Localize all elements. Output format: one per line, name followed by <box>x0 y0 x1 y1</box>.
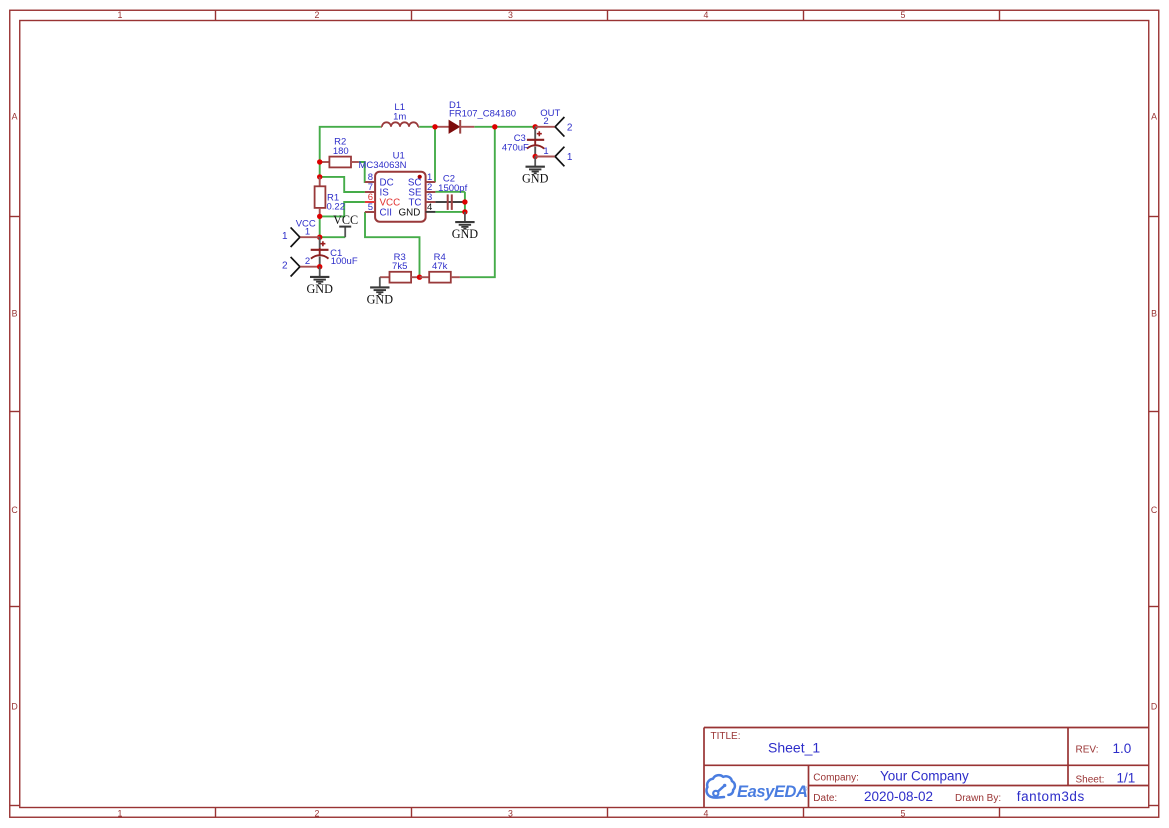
connector pin OUT 1 <box>535 146 573 166</box>
junction node C1 minus / GND <box>317 264 322 269</box>
svg-text:C: C <box>11 505 18 515</box>
U1 pin 7 IS <box>365 182 389 198</box>
svg-text:1/1: 1/1 <box>1117 771 1136 786</box>
op IC U1 MC34063N body <box>358 150 425 221</box>
U1 pin 6 VCC <box>365 192 400 208</box>
svg-text:D: D <box>1151 702 1157 712</box>
svg-text:fantom3ds: fantom3ds <box>1017 789 1085 804</box>
svg-text:4: 4 <box>704 809 709 819</box>
diode D1 FR107 <box>435 100 516 134</box>
svg-text:Drawn By:: Drawn By: <box>955 793 1001 804</box>
svg-text:TITLE:: TITLE: <box>711 731 741 742</box>
svg-text:2: 2 <box>567 122 573 133</box>
svg-text:Your Company: Your Company <box>880 769 969 784</box>
svg-text:1: 1 <box>118 10 123 20</box>
capacitor C1 100uF polarized <box>311 237 358 267</box>
U1 pin 2 SE <box>408 182 435 198</box>
ruler band end tick bottom-right <box>1149 805 1159 807</box>
wire: L1 to SC/diode node <box>419 126 435 128</box>
svg-text:1: 1 <box>567 152 573 163</box>
svg-text:D: D <box>11 702 17 712</box>
ruler numbers top <box>118 10 906 20</box>
svg-text:Sheet:: Sheet: <box>1076 775 1105 786</box>
svg-text:5: 5 <box>368 202 373 213</box>
wire: top rail left segment VCC node to L1 <box>320 127 381 162</box>
svg-text:470uF: 470uF <box>502 142 529 153</box>
svg-text:EasyEDA: EasyEDA <box>737 783 808 801</box>
svg-text:2: 2 <box>315 809 320 819</box>
svg-text:B: B <box>12 309 18 319</box>
EasyEDA logo dot <box>723 784 726 787</box>
title block outline <box>704 728 1149 808</box>
svg-text:4: 4 <box>704 10 709 20</box>
junction node C2 right / TC <box>462 199 467 204</box>
connector pin VCC 2 <box>282 256 320 276</box>
wire: left rail R2 node to IS node <box>319 162 321 177</box>
junction node at C3 minus / OUT pin 1 <box>533 154 538 159</box>
svg-text:Date:: Date: <box>813 793 837 804</box>
resistor R3 7k5 <box>380 252 420 283</box>
ruler band end tick bottom-left <box>10 805 20 807</box>
svg-text:REV:: REV: <box>1076 745 1099 756</box>
svg-text:180: 180 <box>333 146 349 157</box>
U1 pin 4 GND <box>399 202 436 218</box>
ruler tick marks top <box>216 10 1000 20</box>
svg-text:1500pf: 1500pf <box>438 183 467 194</box>
svg-text:Sheet_1: Sheet_1 <box>768 740 820 756</box>
ruler tick marks bottom <box>216 808 1000 818</box>
junction node IS route <box>317 174 322 179</box>
junction node C2 rail / pin4 <box>462 209 467 214</box>
svg-text:2020-08-02: 2020-08-02 <box>864 789 933 804</box>
svg-text:2: 2 <box>315 10 320 20</box>
svg-text:100uF: 100uF <box>331 256 358 267</box>
junction node R3/R4/divider <box>417 275 422 280</box>
svg-text:3: 3 <box>508 10 513 20</box>
svg-text:VCC: VCC <box>333 213 358 227</box>
svg-text:A: A <box>12 112 18 122</box>
svg-text:CII: CII <box>380 207 393 218</box>
junction node at feedback rail <box>492 124 497 129</box>
junction node VCC connector pin1 <box>317 235 322 240</box>
ground symbol at C2 rail <box>452 212 479 241</box>
svg-text:7k5: 7k5 <box>392 261 407 272</box>
wire: feedback rail from OUT node down to R4 <box>460 127 495 277</box>
resistor R4 47k <box>420 252 460 283</box>
wire: VCC junction to VCC power flag <box>320 236 346 238</box>
svg-text:Company:: Company: <box>813 773 859 784</box>
svg-text:4: 4 <box>427 202 432 213</box>
capacitor C2 1500pf <box>435 173 467 210</box>
ground symbol at C1 <box>306 267 333 296</box>
svg-text:®: ® <box>803 785 808 793</box>
wire: C2 rail vertical <box>464 192 466 212</box>
svg-text:1: 1 <box>543 146 548 157</box>
U1 pin 8 DC <box>365 172 394 188</box>
wire: CII pin 5 route to R3/R4 node <box>365 212 420 277</box>
junction node VCC / pin6 <box>317 214 322 219</box>
ruler letters right <box>1151 112 1158 712</box>
wire: diode cathode to OUT pin 2 <box>474 126 535 128</box>
junction node R2 left <box>317 159 322 164</box>
svg-text:5: 5 <box>901 809 906 819</box>
svg-text:2: 2 <box>305 256 310 267</box>
svg-text:FR107_C84180: FR107_C84180 <box>449 108 516 119</box>
wire: IS node to pin 7 <box>320 177 365 192</box>
svg-text:47k: 47k <box>432 261 448 272</box>
inductor L1 <box>381 102 419 127</box>
wire: left rail VCC junction segment <box>319 216 321 237</box>
svg-text:B: B <box>1151 309 1157 319</box>
svg-text:VCC: VCC <box>296 219 316 230</box>
ground symbol at R3 <box>367 277 394 306</box>
connector pin OUT 2 <box>535 116 573 137</box>
capacitor C3 470uF polarized <box>502 127 544 157</box>
ruler numbers bottom <box>118 809 906 819</box>
svg-text:1m: 1m <box>393 112 406 123</box>
VCC power flag <box>333 213 358 237</box>
svg-text:0.22: 0.22 <box>327 202 346 213</box>
U1 pin 3 TC <box>408 192 435 208</box>
svg-text:3: 3 <box>508 809 513 819</box>
resistor R1 0.22 (vertical) <box>315 177 345 217</box>
svg-text:1.0: 1.0 <box>1113 741 1132 756</box>
ruler letters left <box>11 112 18 712</box>
U1 pin 1 SC <box>408 172 436 188</box>
svg-text:5: 5 <box>901 10 906 20</box>
EasyEDA logo cloud icon <box>706 775 734 797</box>
svg-text:C: C <box>1151 505 1158 515</box>
wire: VCC node to pin 6 <box>320 202 365 216</box>
U1 pin 5 CII <box>365 202 392 218</box>
ruler tick marks left <box>10 217 20 607</box>
ruler tick marks right <box>1149 217 1159 607</box>
svg-text:MC34063N: MC34063N <box>358 160 406 171</box>
svg-text:OUT: OUT <box>540 108 560 119</box>
svg-text:2: 2 <box>282 261 288 272</box>
svg-text:1: 1 <box>118 809 123 819</box>
svg-text:1: 1 <box>282 231 288 242</box>
junction node at OUT pin 2 / C3 <box>533 124 538 129</box>
wire: pin 4 GND to C2 rail <box>435 211 465 213</box>
ground symbol at C3 <box>522 157 549 186</box>
connector pin VCC 1 <box>282 227 320 247</box>
wire: SC pin 1 vertical to top rail <box>434 127 436 182</box>
wire: SE pin 2 to C2 rail <box>435 191 465 193</box>
svg-text:A: A <box>1151 112 1157 122</box>
wire: R2 right lead to pin 8 <box>359 162 365 182</box>
svg-text:GND: GND <box>399 207 421 218</box>
resistor R2 180 <box>320 137 359 168</box>
junction node at L1/D1/SC <box>432 124 437 129</box>
